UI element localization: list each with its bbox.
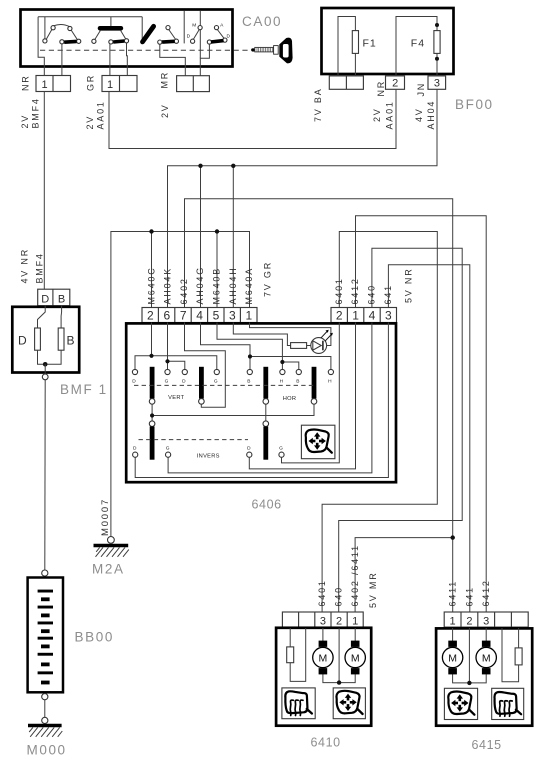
fuse F1 xyxy=(352,31,358,54)
junction node xyxy=(43,362,48,367)
wire ground branch to 6406 pin 5 xyxy=(216,232,218,308)
junction motors xyxy=(467,681,471,685)
ground M2A hatching xyxy=(96,547,129,556)
left connector strip xyxy=(142,308,257,323)
adjust icon frame xyxy=(333,688,365,719)
6410 connector strip xyxy=(282,612,363,627)
svg-text:2: 2 xyxy=(147,309,154,323)
switch group 2 closed bridge xyxy=(100,26,121,31)
svg-text:1: 1 xyxy=(352,309,359,323)
wire fuses to common node xyxy=(38,350,62,364)
svg-text:6411: 6411 xyxy=(448,580,458,607)
wire 6401 (6406 right pin2 to 6410 pin3) xyxy=(322,232,437,612)
svg-text:3: 3 xyxy=(483,615,489,627)
INVERS mechanical dashed line xyxy=(139,439,249,441)
motor 1 (vertical drive) xyxy=(313,641,333,675)
switch group 3 contacts xyxy=(158,26,179,45)
wire 641 (6406 right pin3 to 6415 pin2) xyxy=(388,265,469,612)
svg-text:H: H xyxy=(280,378,284,384)
connector box 3 (MR) xyxy=(177,76,210,92)
svg-text:G: G xyxy=(214,378,218,384)
svg-text:1: 1 xyxy=(450,615,456,627)
svg-text:6412: 6412 xyxy=(350,277,360,304)
wire D pin to fuse D xyxy=(38,306,46,328)
fuse F1 loop wire xyxy=(338,17,355,76)
svg-text:HOR: HOR xyxy=(283,396,297,402)
ignition switch CA00 body xyxy=(21,10,233,67)
svg-text:AA01: AA01 xyxy=(96,100,106,129)
svg-text:3: 3 xyxy=(229,309,236,323)
svg-text:M640A: M640A xyxy=(244,267,254,305)
svg-text:641: 641 xyxy=(465,586,475,606)
VERT wiper pivots xyxy=(149,399,155,405)
INVERS wiper bars xyxy=(150,427,155,460)
svg-text:G: G xyxy=(166,445,170,451)
svg-text:AH04K: AH04K xyxy=(162,267,172,305)
svg-text:D: D xyxy=(132,378,136,384)
adjust icon frame xyxy=(444,688,477,719)
svg-text:G: G xyxy=(165,378,169,384)
ground terminal circle xyxy=(42,717,48,723)
wire group1 to connector 1 pin 2 xyxy=(61,44,63,76)
svg-text:2V: 2V xyxy=(85,115,95,130)
ground M000 bar xyxy=(28,724,62,727)
switch group 3 wiper xyxy=(162,39,175,43)
svg-text:640: 640 xyxy=(367,284,377,304)
svg-text:6406: 6406 xyxy=(252,498,282,512)
svg-text:1: 1 xyxy=(245,309,252,323)
svg-text:D: D xyxy=(133,445,137,451)
wire group2 to connector 2 pin 1 xyxy=(109,44,111,76)
pin 3 wire to LED resistor xyxy=(233,323,290,346)
switch group 1 contacts xyxy=(43,25,81,44)
junction AH04/pin3 xyxy=(231,164,235,168)
svg-text:6402: 6402 xyxy=(179,277,189,304)
svg-text:7: 7 xyxy=(180,309,187,323)
right pin 1 wire to INVERS D xyxy=(249,323,355,469)
motor 1 wires xyxy=(323,628,355,683)
svg-text:AH04H: AH04H xyxy=(228,266,238,304)
svg-text:5: 5 xyxy=(213,309,220,323)
svg-text:6410: 6410 xyxy=(311,736,341,750)
battery top terminal xyxy=(42,570,48,576)
svg-text:B: B xyxy=(247,378,250,384)
svg-text:6: 6 xyxy=(163,309,170,323)
connector box 2 (GR) xyxy=(102,76,137,92)
pin 6 wire to G/D contacts xyxy=(168,323,185,370)
adjust icon xyxy=(336,691,362,714)
mirror unit 6410 body xyxy=(276,628,371,726)
INVERS wiper top pivots xyxy=(149,421,155,427)
svg-text:CA00: CA00 xyxy=(242,14,282,29)
VERT wiper bars xyxy=(150,367,155,399)
svg-text:D: D xyxy=(182,378,186,384)
svg-text:5V MR: 5V MR xyxy=(368,571,378,608)
mechanical link dashed line xyxy=(40,49,250,51)
6415 connector strip xyxy=(444,612,528,627)
svg-text:D: D xyxy=(226,33,230,39)
F4 terminal dots xyxy=(435,23,439,27)
heater resistor loop xyxy=(502,628,519,682)
junction pin6 xyxy=(165,359,169,363)
svg-text:BF00: BF00 xyxy=(455,97,494,112)
switch group 3 open wiper xyxy=(143,26,154,42)
svg-text:M640B: M640B xyxy=(212,267,222,305)
svg-text:G: G xyxy=(279,445,283,451)
wire battery to ground xyxy=(44,700,46,718)
wiper common bus xyxy=(152,404,314,421)
switch 6406 body xyxy=(126,323,396,482)
junction 6402/6411 xyxy=(451,535,455,539)
wire AH04 (BF00 pin3 to 6406 pin6) xyxy=(168,89,438,307)
ground terminal circle xyxy=(108,537,115,544)
svg-text:4V: 4V xyxy=(414,107,424,122)
junction pin4 xyxy=(248,354,252,358)
mirror unit 6415 body xyxy=(436,628,532,725)
switch group 4 wiper xyxy=(211,41,224,42)
svg-text:4: 4 xyxy=(369,309,376,323)
INVERS contact circles xyxy=(133,445,285,457)
mirror adjust icon frame xyxy=(301,425,335,459)
HOR wiper pivots xyxy=(263,399,269,405)
svg-text:BMF 1: BMF 1 xyxy=(60,382,108,397)
svg-text:D: D xyxy=(18,334,27,348)
heater resistor xyxy=(287,647,294,663)
wire drop to switch group 3 xyxy=(141,17,143,40)
connector box 1 (NR) xyxy=(36,76,71,92)
svg-text:1: 1 xyxy=(352,615,358,627)
svg-text:H: H xyxy=(328,378,332,384)
battery bottom terminal xyxy=(42,694,48,700)
wire BMF4 (CA00 to BMF1) xyxy=(43,92,45,290)
fuse box BF00 body xyxy=(322,8,454,74)
svg-text:NR: NR xyxy=(376,80,386,97)
switch group 4 contacts xyxy=(191,26,227,45)
svg-text:NR: NR xyxy=(21,74,31,91)
LED resistor xyxy=(291,343,307,349)
svg-text:M: M xyxy=(192,22,196,28)
svg-text:1: 1 xyxy=(42,79,48,91)
mirror adjust icon xyxy=(306,430,332,453)
svg-text:6412: 6412 xyxy=(481,579,491,606)
svg-text:BMF4: BMF4 xyxy=(31,97,41,128)
svg-text:B: B xyxy=(67,334,75,348)
svg-text:F1: F1 xyxy=(363,38,377,50)
BMF1 body xyxy=(12,307,79,373)
junction AH04/pin4 xyxy=(198,164,202,168)
connector (7V BA) xyxy=(329,76,363,89)
ignition key column xyxy=(183,11,185,44)
svg-text:GR: GR xyxy=(86,74,96,91)
motor 1 (vertical drive) xyxy=(442,641,462,675)
wire 7V GR ground (M2A to 6406 pin1) xyxy=(111,232,250,537)
wire B pin to fuse B xyxy=(60,306,63,328)
pin 5 wire to H/B contacts xyxy=(217,323,299,370)
svg-text:M0007: M0007 xyxy=(100,498,111,536)
switch group 2 contacts xyxy=(92,31,129,44)
pin 2 wire to D/G contacts xyxy=(135,323,217,370)
wire drop to switch group 2 xyxy=(110,17,112,26)
wire 640 (6406 right pin4 to 6410 pin2) xyxy=(339,248,463,612)
svg-text:B: B xyxy=(296,378,299,384)
VERT/HOR mechanical dashed line xyxy=(134,384,314,386)
svg-text:2V: 2V xyxy=(20,114,30,129)
svg-text:M2A: M2A xyxy=(92,562,125,577)
svg-text:6401: 6401 xyxy=(317,579,327,606)
HOR contact circles xyxy=(247,369,333,384)
connector pin 2 xyxy=(386,76,405,89)
junction bus xyxy=(150,413,154,417)
svg-text:1: 1 xyxy=(107,79,113,91)
fuse F4 branch wire xyxy=(396,17,437,76)
motor wires xyxy=(453,628,487,683)
svg-text:4V NR: 4V NR xyxy=(20,248,30,284)
svg-text:VERT: VERT xyxy=(168,395,184,401)
wire 6402 / 6411 (6406 pin7 to 6415 pin1) xyxy=(185,199,453,612)
right pin 4 wire to INVERS G xyxy=(168,323,372,473)
svg-text:640: 640 xyxy=(334,586,344,606)
pin 1 wire to LED cathode xyxy=(250,323,331,346)
motor 2 (horizontal drive) xyxy=(476,641,496,675)
svg-text:INVERS: INVERS xyxy=(197,453,220,459)
right pin 3 wire to INVERS D xyxy=(135,323,388,478)
pin 7 wire to VERT wiper xyxy=(185,323,226,408)
heated mirror icon xyxy=(285,691,312,715)
svg-text:B: B xyxy=(58,294,65,306)
internal feed bus xyxy=(38,16,142,18)
wire AA01 (CA00 to BF00 pin2) xyxy=(109,89,396,148)
wire 6402 branch to 6410 pin 1 xyxy=(355,538,453,612)
VERT contact circles xyxy=(132,369,219,384)
junction pin2 xyxy=(149,354,153,358)
svg-text:2V: 2V xyxy=(160,103,170,118)
svg-text:2: 2 xyxy=(336,309,343,323)
fuse F4 xyxy=(434,31,440,54)
svg-text:M640C: M640C xyxy=(146,266,156,304)
fuse D xyxy=(35,328,41,350)
svg-text:D: D xyxy=(41,294,49,306)
heater resistor xyxy=(515,648,522,665)
fuse B xyxy=(58,328,64,350)
svg-text:6401: 6401 xyxy=(334,277,344,304)
svg-text:BMF4: BMF4 xyxy=(35,252,45,283)
wire group2 right contact to connector 2 xyxy=(126,43,129,76)
junction ground/pin2 xyxy=(149,229,153,233)
svg-text:641: 641 xyxy=(383,284,393,304)
right connector strip xyxy=(331,308,397,323)
LED xyxy=(307,330,333,354)
svg-text:3: 3 xyxy=(320,615,326,627)
svg-text:MR: MR xyxy=(160,71,170,89)
battery BB00 body xyxy=(28,578,63,693)
heated mirror icon frame xyxy=(492,688,524,719)
connector pin 3 xyxy=(428,76,446,89)
adjust icon xyxy=(448,692,474,715)
svg-text:7V BA: 7V BA xyxy=(313,87,323,122)
switch group 1 wiper xyxy=(64,40,76,44)
svg-text:3: 3 xyxy=(434,78,440,90)
wire ground branch to 6406 pin 2 xyxy=(151,232,153,308)
svg-text:6415: 6415 xyxy=(472,738,502,752)
svg-text:D: D xyxy=(187,34,191,40)
battery cell plates xyxy=(38,590,53,685)
wire drop to switch group 1 xyxy=(44,17,46,39)
ground M2A bar xyxy=(94,544,129,547)
wire jog to connector 1 pin 1 xyxy=(38,17,44,76)
wire group3 to connector 3 pin 1 xyxy=(160,44,186,75)
svg-text:AH04G: AH04G xyxy=(195,266,205,305)
svg-text:F4: F4 xyxy=(411,38,425,50)
svg-text:JN: JN xyxy=(416,82,426,97)
fuse F4 lower wire xyxy=(436,53,438,76)
wire AH04 branch to 6406 pin 4 xyxy=(200,166,202,308)
wire AH04 branch to 6406 pin 3 xyxy=(232,166,234,308)
svg-text:BB00: BB00 xyxy=(75,630,114,645)
BMF1 connector D/B xyxy=(38,289,70,306)
svg-text:AA01: AA01 xyxy=(385,100,395,129)
svg-text:2: 2 xyxy=(336,615,342,627)
wire BMF1 to BB00 xyxy=(44,380,46,570)
ignition key symbol xyxy=(251,38,293,64)
pin 4 wire to B/H contacts xyxy=(201,323,331,370)
switch group 2 wiper xyxy=(113,41,124,42)
svg-text:AH04: AH04 xyxy=(426,100,436,130)
wire node to output xyxy=(44,364,46,374)
heated mirror icon xyxy=(494,692,521,716)
svg-text:5V NR: 5V NR xyxy=(404,267,414,303)
svg-text:6402 /6411: 6402 /6411 xyxy=(350,544,360,606)
svg-text:7V GR: 7V GR xyxy=(263,261,273,297)
svg-text:2: 2 xyxy=(392,78,398,90)
motor 2 (horizontal drive) xyxy=(345,641,365,675)
junction ground/pin5 xyxy=(215,229,219,233)
wire 6412 (6406 right pin1 to 6415 pin3) xyxy=(356,216,487,612)
heated mirror icon frame xyxy=(282,688,315,719)
svg-text:2V: 2V xyxy=(372,107,382,122)
svg-text:3: 3 xyxy=(385,309,392,323)
junction motors xyxy=(337,680,341,684)
svg-text:D: D xyxy=(247,445,251,451)
svg-text:2: 2 xyxy=(466,615,472,627)
output bullet xyxy=(42,374,48,380)
junction pin5 xyxy=(280,360,284,364)
wire group4 to connector 3 pin 2 xyxy=(200,44,209,76)
right pin 2 wire to INVERS G xyxy=(282,323,340,463)
ground M000 hatching xyxy=(29,727,62,736)
HOR wiper bars xyxy=(263,367,268,399)
svg-text:M000: M000 xyxy=(27,743,67,758)
svg-text:4: 4 xyxy=(196,309,203,323)
heater resistor loop xyxy=(290,628,306,681)
